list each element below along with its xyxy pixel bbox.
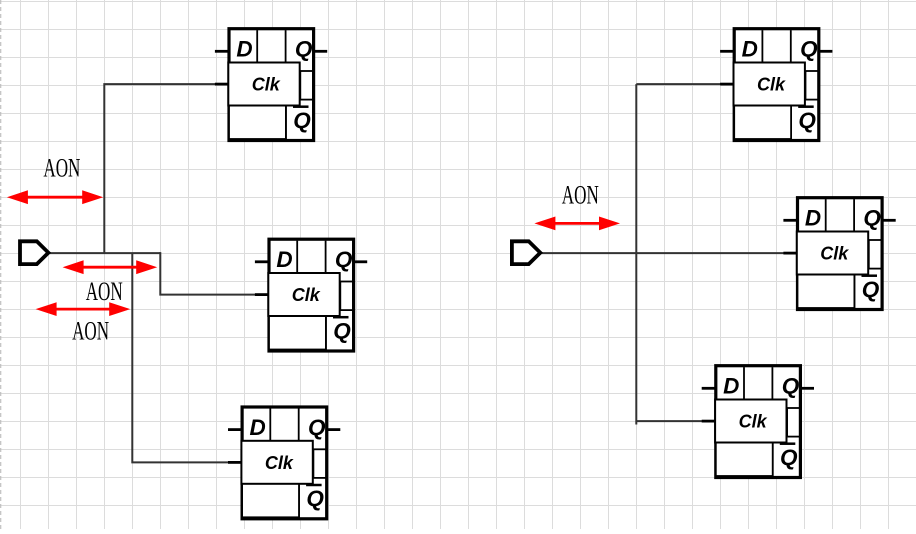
flip-flop FF1 top-left (215, 29, 327, 141)
flip-flop FF4 top-right (720, 29, 832, 141)
svg-text:AON: AON (43, 152, 80, 182)
wire: right main horizontal (540, 252, 784, 254)
svg-text:AON: AON (562, 179, 599, 209)
dimension arrow AON2 (63, 260, 158, 274)
flip-flop FF6 bottom-right (702, 366, 814, 478)
dimension arrow AON4 (534, 217, 620, 231)
flip-flop FF2 middle-left (255, 239, 367, 351)
dimension arrow AON1 (7, 190, 103, 204)
wire: left step to middle flip-flop (160, 252, 255, 295)
dimension arrow AON3 (36, 302, 131, 316)
wire: left trunk to bottom flip-flop (132, 253, 228, 462)
wire: left trunk to top flip-flop (104, 84, 215, 253)
input port P2 (512, 241, 540, 264)
flip-flop FF5 middle-right (783, 198, 895, 310)
input port P1 (20, 241, 48, 264)
wire: left main horizontal (48, 252, 160, 254)
wire: right trunk vertical (635, 84, 637, 424)
flip-flop FF3 bottom-left (228, 407, 340, 519)
svg-text:AON: AON (86, 276, 123, 306)
wire: right branch to bottom flip-flop (636, 420, 702, 422)
svg-text:AON: AON (72, 316, 109, 346)
wire: right branch to top flip-flop (636, 83, 720, 85)
